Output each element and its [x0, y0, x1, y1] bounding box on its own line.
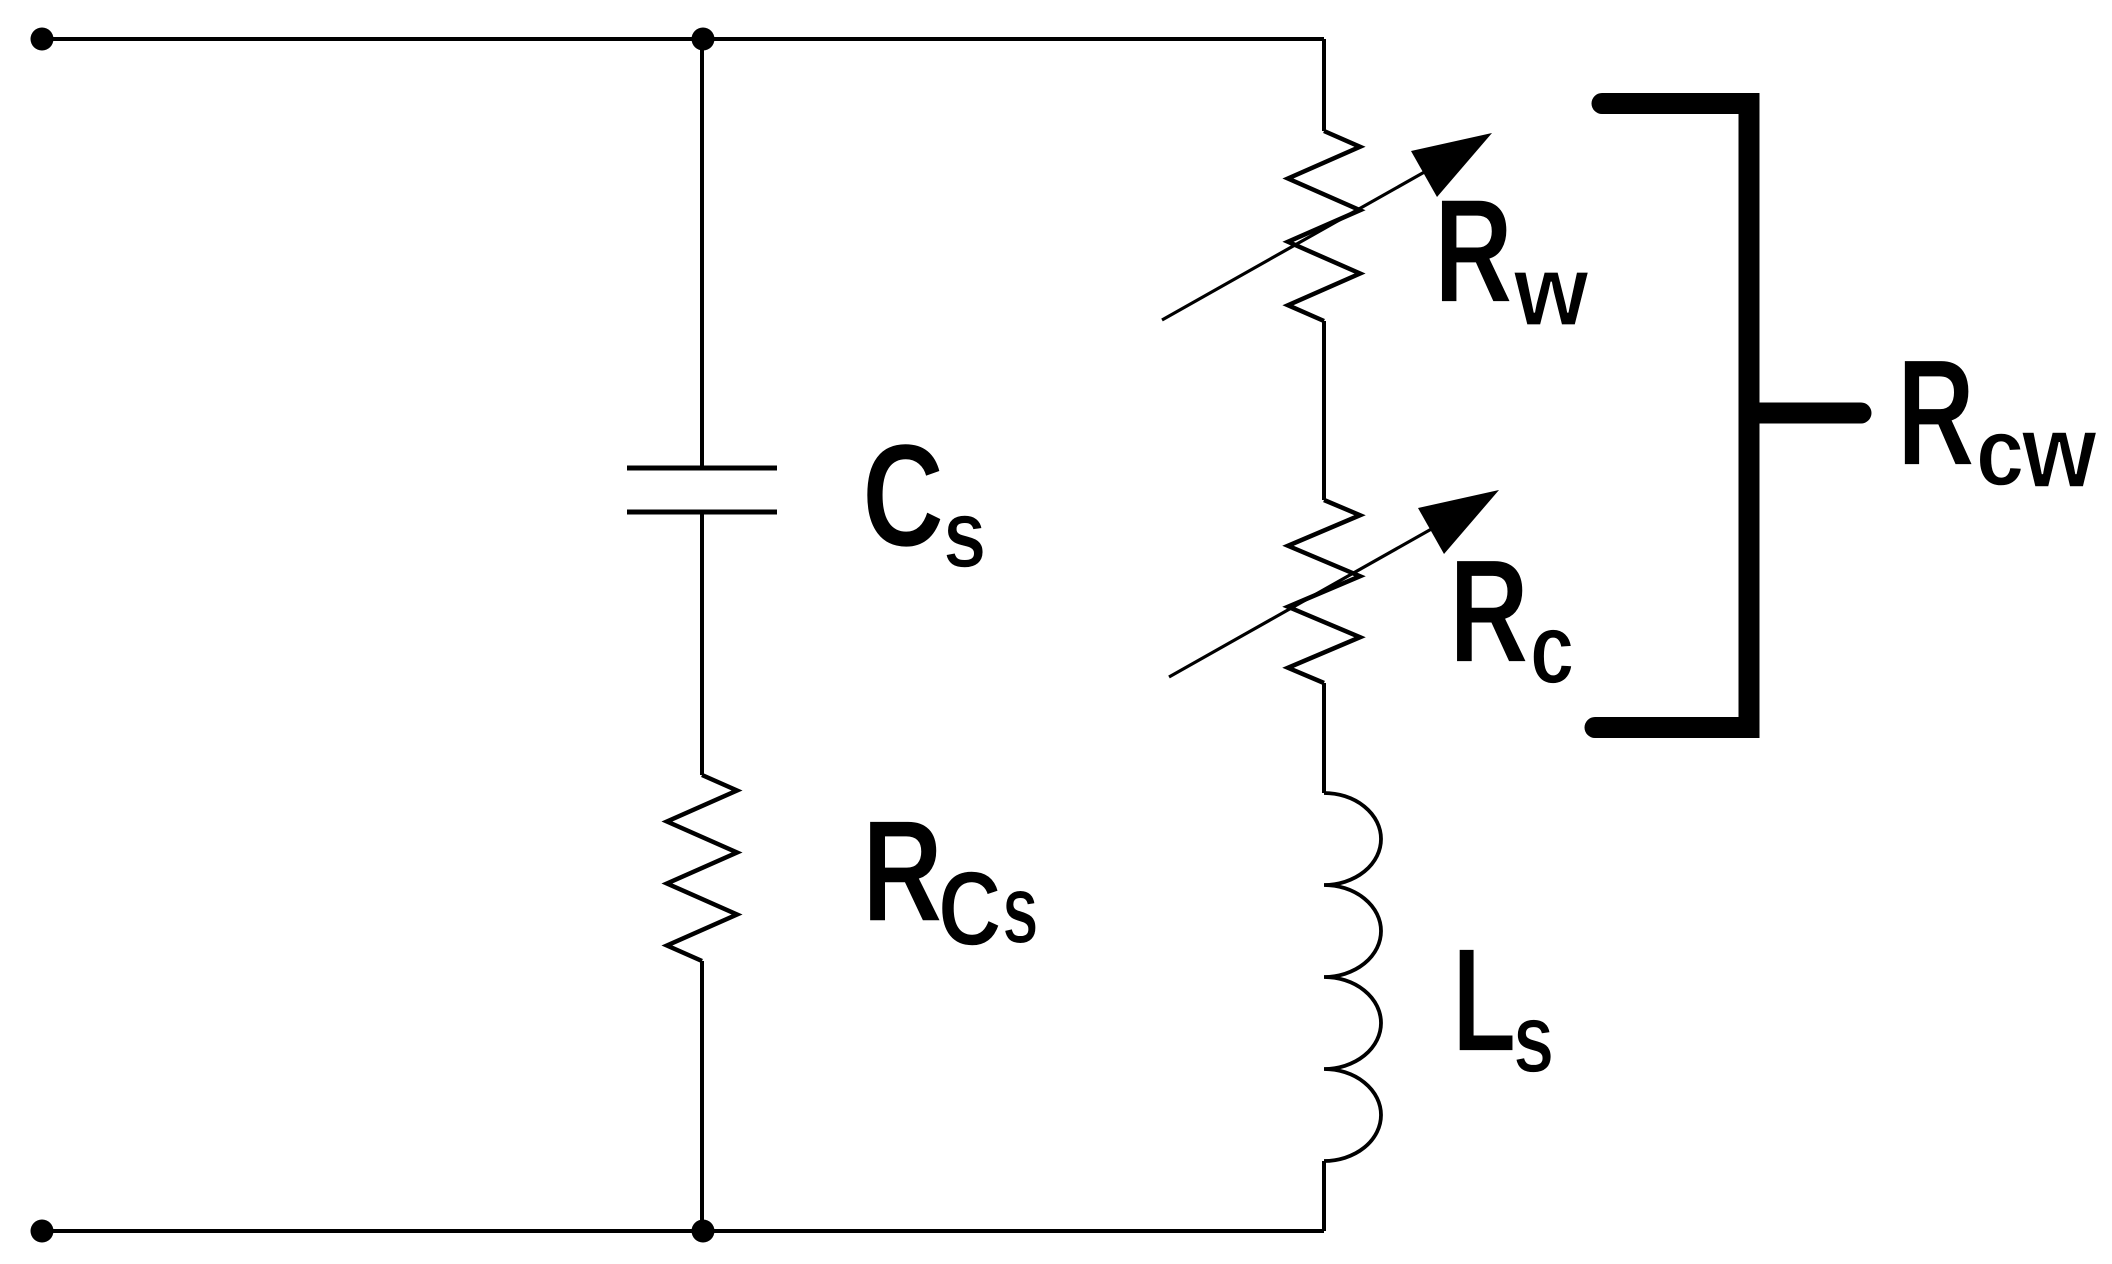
label Rc [1449, 528, 1574, 705]
svg-text:c: c [1976, 399, 2024, 506]
label RCs [862, 789, 1039, 968]
node junction top [692, 28, 715, 51]
bracket Rcw [1595, 104, 1749, 728]
capacitor Cs [627, 468, 777, 512]
bracket Rcw tick [1749, 403, 1861, 424]
inductor Ls [1324, 793, 1381, 1161]
svg-text:s: s [943, 479, 986, 588]
label Cs [862, 413, 986, 588]
wire right branch top [1322, 39, 1326, 131]
wire between Rw and Rc [1322, 321, 1326, 500]
wire right branch bottom [1322, 1161, 1326, 1231]
resistor Rw arrow [1162, 133, 1492, 320]
wire left branch lower [700, 961, 704, 1231]
resistor Rw zigzag [1288, 131, 1360, 321]
wire bottom horizontal [42, 1229, 1324, 1233]
svg-text:R: R [862, 789, 943, 953]
resistor Rc zigzag [1288, 500, 1360, 683]
svg-text:R: R [1449, 528, 1529, 693]
wire left branch upper [700, 39, 704, 466]
svg-text:L: L [1452, 917, 1516, 1083]
svg-text:C: C [862, 413, 944, 577]
resistor RCs [667, 775, 737, 961]
wire between Cs and RCs [700, 514, 704, 775]
svg-text:w: w [2021, 395, 2097, 510]
label Rw [1434, 168, 1589, 347]
svg-text:C: C [938, 849, 1002, 968]
svg-text:R: R [1897, 327, 1975, 498]
node junction bottom [692, 1220, 715, 1243]
wire top horizontal [42, 37, 1324, 41]
svg-text:c: c [1530, 593, 1574, 705]
resistor Rc arrow [1169, 490, 1499, 677]
node terminal bottom-left [31, 1220, 54, 1243]
label Rcw [1897, 327, 2097, 510]
label Ls [1452, 917, 1554, 1093]
node terminal top-left [31, 28, 54, 51]
svg-text:s: s [1002, 854, 1039, 964]
wire between Rc and Ls [1322, 683, 1326, 793]
svg-text:s: s [1513, 983, 1554, 1094]
svg-text:R: R [1434, 168, 1513, 334]
svg-text:w: w [1513, 234, 1589, 346]
